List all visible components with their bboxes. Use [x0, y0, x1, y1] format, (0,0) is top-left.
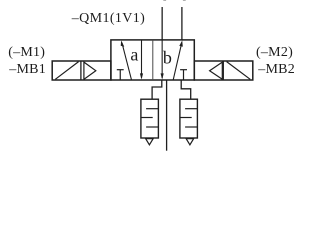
right muffler exhaust triangle — [186, 139, 194, 145]
solenoid MB2 diagonal — [227, 62, 251, 80]
svg-text:(–M2): (–M2) — [256, 45, 293, 60]
chamber b diagonal arrow shaft — [173, 43, 182, 80]
left pilot triangle — [84, 62, 96, 79]
blocked port T (chamber a) — [117, 70, 124, 80]
wire stub top left (cropped) — [163, 0, 166, 1]
svg-text:(–M1): (–M1) — [8, 45, 45, 60]
chamber b down arrow shaft — [161, 40, 163, 78]
chamber a diagonal arrowhead — [121, 40, 125, 46]
left exhaust wire to muffler — [152, 80, 162, 99]
left pilot box divider — [80, 61, 82, 80]
valve QM1 body outline — [111, 40, 194, 80]
svg-text:–MB2: –MB2 — [257, 62, 295, 77]
right muffler baffle 3 — [185, 126, 197, 128]
chamber b diagonal arrowhead — [179, 40, 183, 46]
supply line port 1 — [166, 80, 168, 151]
left muffler body — [141, 99, 159, 138]
right pilot box divider — [222, 61, 224, 80]
port line 2 (top right) — [181, 7, 183, 40]
chamber b down arrowhead — [161, 73, 164, 79]
chamber a diagonal arrow shaft — [122, 43, 132, 80]
blocked port T (chamber b) — [180, 70, 187, 80]
svg-text:a: a — [130, 45, 138, 65]
valve position divider — [152, 40, 154, 80]
wire stub top right (cropped) — [183, 0, 186, 1]
chamber a down arrowhead — [140, 73, 143, 79]
right muffler baffle 1 — [185, 108, 197, 110]
chamber a down arrow shaft — [141, 40, 143, 78]
right muffler body — [180, 99, 198, 138]
right pilot box MB2 outline — [194, 61, 253, 80]
svg-text:–QM1(1V1): –QM1(1V1) — [71, 11, 145, 26]
right exhaust wire to muffler — [181, 80, 191, 99]
left muffler baffle 2 — [141, 117, 153, 119]
port line 4 (top left) — [161, 7, 163, 40]
left pilot box MB1 outline — [52, 61, 111, 80]
left muffler baffle 3 — [146, 126, 158, 128]
left muffler baffle 1 — [146, 108, 158, 110]
solenoid MB1 diagonal — [55, 62, 78, 80]
svg-text:–MB1: –MB1 — [8, 62, 46, 77]
svg-text:b: b — [163, 47, 172, 67]
left muffler exhaust triangle — [146, 139, 154, 145]
right muffler baffle 2 — [180, 117, 192, 119]
right pilot triangle — [210, 62, 223, 79]
